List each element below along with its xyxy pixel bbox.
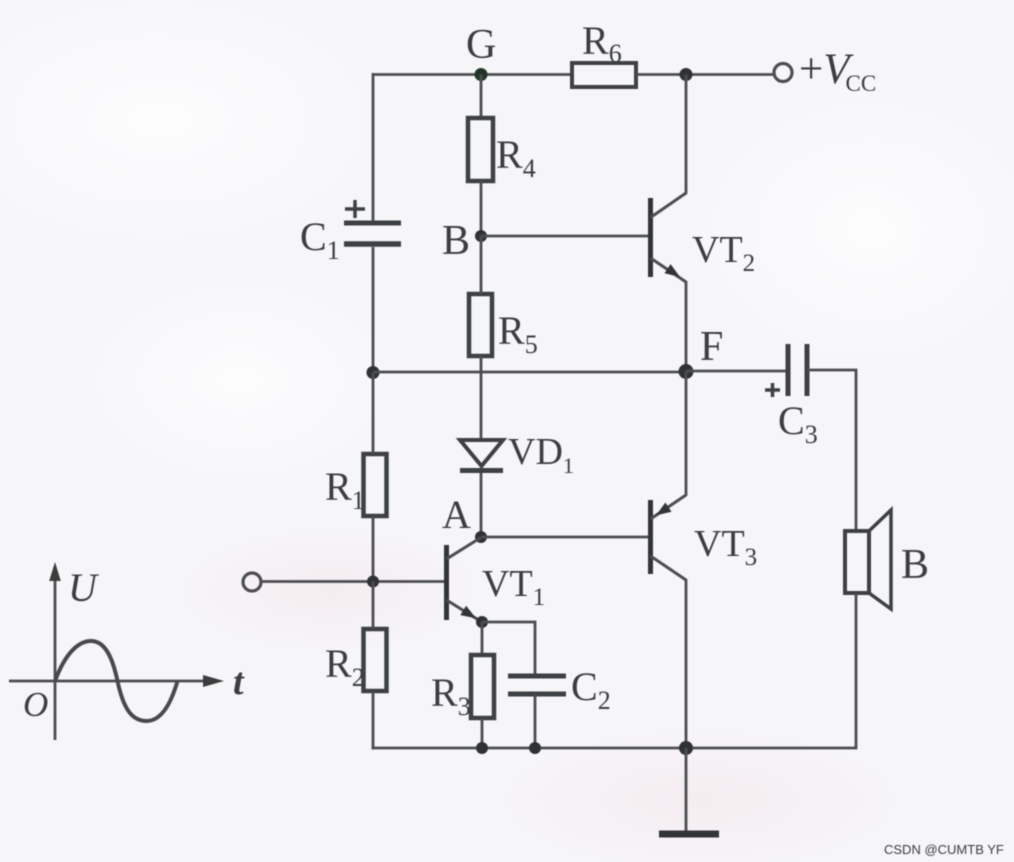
node ground junction — [679, 741, 693, 755]
node B — [442, 218, 487, 264]
wire node B to R5 — [480, 236, 483, 294]
svg-text:F: F — [700, 324, 723, 370]
wire speaker to bottom rail — [855, 593, 858, 749]
svg-text:U: U — [68, 565, 100, 610]
wire F line — [373, 371, 686, 374]
wire left rail C1 to F line — [372, 247, 375, 373]
resistor R3 — [431, 655, 494, 721]
svg-text:B: B — [442, 218, 470, 264]
input waveform t axis — [9, 661, 245, 703]
wire R2 to bottom rail — [372, 691, 375, 750]
svg-text:CSDN @CUMTB YF: CSDN @CUMTB YF — [884, 842, 1004, 857]
wire VT1 emitter to C2 — [482, 622, 535, 676]
wire C3 to speaker — [807, 370, 856, 531]
wire node A to VT3 base — [481, 536, 648, 539]
wire top rail right segment — [636, 73, 774, 76]
wire F to C3 — [686, 370, 787, 373]
node G — [466, 22, 496, 81]
wire input junction to R2 — [372, 582, 375, 630]
wire C2 to bottom rail — [534, 694, 537, 748]
origin O label — [23, 685, 48, 724]
wire F junction to R1 — [372, 373, 375, 454]
node A — [442, 492, 487, 543]
node R3 bottom junction — [476, 742, 488, 754]
svg-text:A: A — [442, 492, 471, 537]
node junction left rail / F line — [367, 366, 380, 379]
diode VD1 — [460, 431, 574, 478]
wire bottom rail — [372, 747, 856, 750]
svg-text:t: t — [233, 661, 245, 703]
node input junction — [367, 576, 379, 588]
node C2 bottom junction — [529, 742, 541, 754]
node F — [679, 324, 724, 379]
wire left rail top (top rail to C1) — [372, 73, 375, 221]
wire R4 to node B — [480, 181, 483, 236]
capacitor C1 — [300, 200, 401, 265]
transistor VT1 — [447, 538, 546, 622]
wire G to R4 — [480, 75, 483, 119]
resistor R5 — [469, 294, 538, 359]
input terminal — [243, 573, 261, 591]
node VT1 emitter junction — [476, 616, 488, 628]
watermark — [884, 842, 1004, 857]
wire R3 to bottom rail — [481, 718, 484, 748]
wire R5 to diode VD1 (crosses F line) — [480, 356, 483, 440]
speaker B — [845, 510, 929, 609]
svg-text:B: B — [901, 542, 929, 588]
wire VD1 to node A — [480, 473, 483, 537]
svg-text:G: G — [466, 22, 496, 68]
sine wave — [55, 641, 178, 721]
ground — [659, 748, 719, 834]
resistor R2 — [325, 629, 387, 692]
capacitor C3 — [765, 344, 818, 449]
svg-text:O: O — [23, 685, 48, 724]
wire VT1 emitter to R3 — [481, 622, 484, 655]
node junction top (R6 / VT2 collector) — [680, 68, 693, 81]
wire R1 to input junction — [372, 516, 375, 582]
resistor R4 — [468, 118, 536, 183]
wire node B to VT2 base — [481, 235, 648, 238]
wire input to VT1 base — [261, 580, 444, 583]
resistor R6 — [572, 18, 636, 87]
resistor R1 — [325, 454, 387, 516]
capacitor C2 — [508, 664, 611, 715]
terminal +Vcc — [774, 46, 876, 96]
transistor VT3 — [651, 372, 758, 748]
input waveform U axis — [49, 562, 100, 740]
transistor VT2 — [651, 75, 756, 373]
wire top rail left segment — [373, 73, 572, 76]
